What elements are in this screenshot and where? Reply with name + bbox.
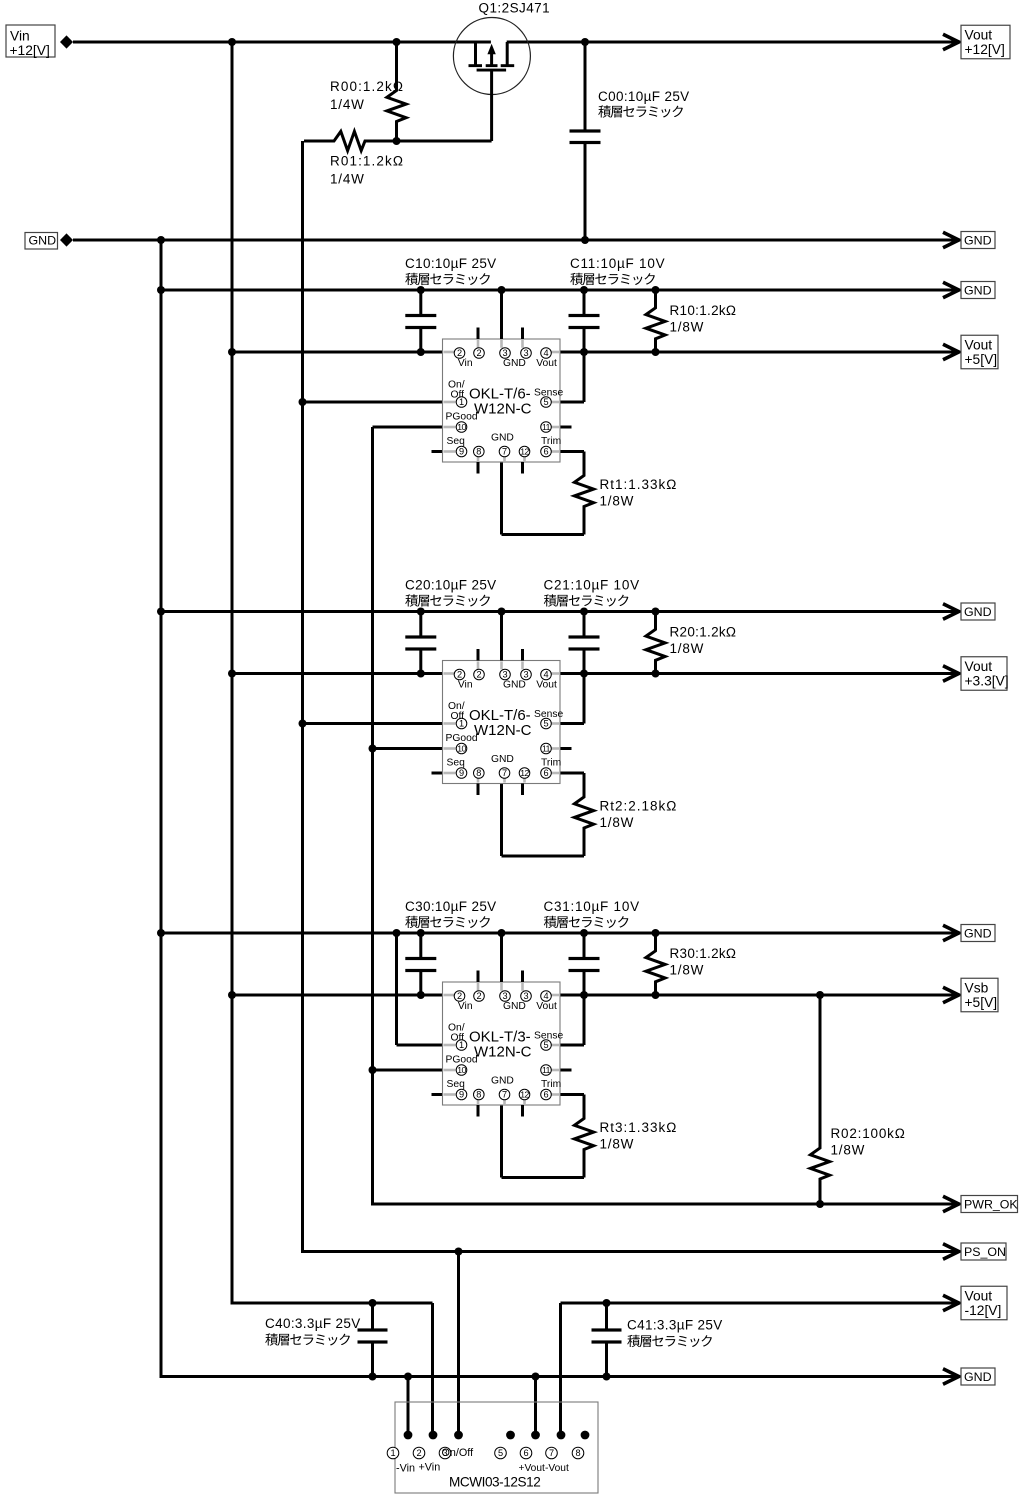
wire C40 row [232,1302,433,1305]
junction C40 row / C40 [369,1299,377,1307]
capacitor C21 value label [544,578,640,593]
module U3 top pin stub x522.5 [521,971,524,983]
wire Sense module 1 [560,352,584,402]
module U4 name MCWI03-12S12 [449,1475,540,1490]
capacitor C00 value label [598,89,690,104]
svg-text:3: 3 [523,348,528,358]
wire pin11 stub module 2 [560,747,572,750]
junction On/Off row2 / PS_ON bus [299,720,307,728]
wire MCWI +Vin column [431,1303,434,1435]
module U1 bottom pin stub x522.5 [521,462,524,474]
svg-text:9: 9 [459,447,464,457]
resistor Rt2 value label [600,799,678,831]
svg-text:9: 9 [459,1090,464,1100]
transistor Q1 source bar [469,64,483,67]
module U1 pin name Vin [458,358,473,369]
wire pin11 stub module 1 [560,426,572,429]
node PS_ON arrow [943,1244,959,1259]
wire pin11 stub module 3 [560,1069,572,1072]
module U3 pin 5 circle [541,1040,552,1051]
module U1 pin 11 circle [541,422,552,433]
svg-text:GND: GND [503,358,526,369]
module U2 pin 2 top circle [474,669,485,680]
wire Vin row module 2 left [232,672,443,675]
svg-text:8: 8 [575,1448,580,1458]
svg-text:C41:3.3µF 25V: C41:3.3µF 25V [627,1318,723,1333]
svg-text:1/4W: 1/4W [330,97,365,112]
module U4 pin name +Vin [419,1462,441,1474]
module U2 pin 9 circle [456,768,467,779]
junction GND row1 / GND bus [157,286,165,294]
junction GND row1 / GND pin column [498,286,506,294]
node output arrow module 2 [943,666,959,681]
transistor Q1 2SJ471 body circle [453,18,530,95]
junction Vin row3 / +12V bus [228,991,236,999]
svg-text:Vout: Vout [965,1288,993,1303]
transistor Q1 source lead [474,42,477,65]
svg-text:C20:10µF 25V: C20:10µF 25V [405,578,497,593]
svg-text:R00:1.2kΩ: R00:1.2kΩ [330,79,404,94]
transistor Q1 body arrow [487,44,495,65]
node GND arrow row0 [943,232,959,247]
wire Sense module 2 [560,674,584,724]
wire PGood bus vertical x372.5 [371,427,374,1206]
net label Vout +12[V] [961,25,1010,59]
module U2 pin name Trim [541,758,561,769]
svg-text:7: 7 [502,1090,507,1100]
junction Vin row1 / +12V bus [228,348,236,356]
module U2 pin 3 circle [500,669,511,680]
module U1 top pin stub x478 [477,328,480,340]
svg-text:1/8W: 1/8W [670,963,705,978]
net label GND row3 [961,925,995,942]
junction GND rail / GND bus [157,236,165,244]
svg-text:Vin: Vin [458,1001,473,1012]
module U2 pin name Vout [536,680,557,691]
module U2 bottom pin stub x522.5 [521,784,524,796]
svg-text:8: 8 [476,1090,481,1100]
svg-text:GND: GND [503,680,526,691]
junction GND row3 / GND bus [157,929,165,937]
module U3 pin 2 Vin circle [454,991,465,1002]
junction Vin row2 / C20 [417,670,425,678]
module U3 pin 4 Vout circle [541,991,552,1002]
junction GND row1 / R10 [652,286,660,294]
module U4 pin name -Vin [396,1463,415,1475]
node GND bottom arrow [943,1369,959,1384]
svg-text:Seq: Seq [447,1079,466,1090]
svg-text:1/8W: 1/8W [600,815,635,830]
module U2 pin name Vin [458,680,473,691]
wire module 3 On/Off tie column x396.5 [395,933,398,1045]
junction GND row2 / GND bus [157,608,165,616]
module U4 pin 5 circle [495,1447,507,1459]
svg-text:C31:10µF 10V: C31:10µF 10V [544,899,640,914]
node GND arrow row1 [943,282,959,297]
module U3 pin 8 circle [474,1089,485,1100]
svg-text:4: 4 [543,670,548,680]
wire MCWI -Vin column [407,1377,410,1436]
svg-text:1/8W: 1/8W [831,1143,866,1158]
net label GND input box [25,233,58,250]
module U2 pin 10 circle [456,743,467,754]
module U4 pin name -Vout [545,1463,569,1474]
resistor Rt2 [574,797,593,857]
svg-text:GND: GND [491,754,514,765]
resistor R00 1.2k [387,43,406,140]
svg-text:10: 10 [457,422,466,432]
svg-text:Vin: Vin [10,29,30,44]
svg-text:-Vout: -Vout [545,1463,569,1474]
svg-text:W12N-C: W12N-C [474,401,532,418]
junction Vout row2 / R20 [652,670,660,678]
junction Vout row3 / R30 [652,991,660,999]
junction GND row3 / GND pin column [498,929,506,937]
svg-text:GND: GND [964,283,992,297]
module U3 pin 12 circle [519,1089,530,1100]
svg-text:Trim: Trim [541,758,561,769]
junction +12V rail / +12V bus [228,38,236,46]
capacitor C10 [405,290,436,352]
capacitor C40 [358,1303,388,1377]
capacitor C20 value label [405,578,497,593]
module U4 pin 3 dot [454,1431,463,1440]
svg-text:C40:3.3µF 25V: C40:3.3µF 25V [265,1316,361,1331]
svg-text:Vsb: Vsb [965,980,989,995]
module U2 grey pin lines [444,662,560,783]
wire PS_ON row [303,1250,959,1253]
svg-text:4: 4 [543,991,548,1001]
module U2 pin 2 Vin circle [454,669,465,680]
svg-text:GND: GND [491,433,514,444]
wire On/Off row module 3 [397,1044,443,1047]
capacitor C40 value label [265,1316,361,1331]
svg-text:+3.3[V]: +3.3[V] [965,674,1009,689]
module U1 pin 3 circle [500,348,511,359]
wire GND main rail [73,239,959,242]
svg-text:Sense: Sense [534,388,563,399]
module U3 pin 6 circle [541,1089,552,1100]
junction On/Off row1 / PS_ON bus [299,398,307,406]
svg-text:GND: GND [964,926,992,940]
svg-text:R20:1.2kΩ: R20:1.2kΩ [670,625,737,640]
module U4 pin 2 dot [429,1431,438,1440]
module U2 OKL-T/6-W12N-C box [443,661,561,784]
wire On/Off row module 2 [303,722,443,725]
node Vin input diamond [60,35,73,48]
svg-text:R01:1.2kΩ: R01:1.2kΩ [330,154,404,169]
module U1 GND top pin column [500,290,503,339]
capacitor C20 [405,612,436,674]
svg-text:GND: GND [491,1076,514,1087]
wire Vout row module 1 right [560,351,959,354]
svg-text:Rt2:2.18kΩ: Rt2:2.18kΩ [600,799,678,814]
module U3 pin name Vout [536,1001,557,1012]
svg-text:7: 7 [502,447,507,457]
wire PGood row module 1 [373,426,443,429]
module U1 pin name GND top [503,358,526,369]
module U1 pin 1 circle [456,397,467,408]
node GND input diamond [60,233,73,246]
capacitor C30 value label [405,899,497,914]
junction module3 On/Off tie / GND row3 [393,929,401,937]
module U1 pin 9 circle [456,446,467,457]
capacitor C31 [569,933,600,995]
module U4 pin 2 circle [413,1447,425,1459]
svg-text:+5[V]: +5[V] [965,995,998,1010]
module U3 pin 3 circle [500,991,511,1002]
module U2 top pin stub x522.5 [521,649,524,661]
junction Vin row2 / +12V bus [228,670,236,678]
capacitor C31 value label [544,899,640,914]
module U2 pin name GND top [503,680,526,691]
module U4 pin 1 dot [404,1431,413,1440]
module U4 pin 5 dot [506,1431,515,1440]
module U3 pin name Vin [458,1001,473,1012]
svg-text:Sense: Sense [534,709,563,720]
svg-text:C21:10µF 10V: C21:10µF 10V [544,578,640,593]
node output arrow module 1 [943,344,959,359]
capacitor C41 value label [627,1318,723,1333]
svg-text:+12[V]: +12[V] [965,42,1005,57]
wire +12V bus vertical x232 [231,42,234,1305]
junction GND row1 / C10 [417,286,425,294]
module U3 pin 7 circle [499,1089,510,1100]
node Vout -12[V] arrow [943,1295,959,1310]
transistor Q1 drain lead [506,42,509,65]
wire Rt1 bottom to GND pin [502,462,585,535]
svg-text:8: 8 [476,447,481,457]
svg-text:1/8W: 1/8W [600,494,635,509]
capacitor C20 japanese label [405,594,490,606]
module U1 pin 6 circle [541,446,552,457]
module U2 pin 7 circle [499,768,510,779]
svg-text:9: 9 [459,768,464,778]
svg-text:7: 7 [549,1448,554,1458]
svg-text:2: 2 [457,991,462,1001]
svg-text:5: 5 [543,397,548,407]
net label GND row0 [961,232,995,249]
transistor Q1 drain bar [501,64,515,67]
svg-text:10: 10 [457,1065,466,1075]
module U2 pin 4 Vout circle [541,669,552,680]
svg-text:2: 2 [457,348,462,358]
svg-text:Seq: Seq [447,436,466,447]
svg-text:5: 5 [543,1040,548,1050]
junction GND row1 / C11 [580,286,588,294]
module U1 pin 12 circle [519,446,530,457]
wire Vout -12V row [561,1302,959,1305]
svg-text:R02:100kΩ: R02:100kΩ [831,1126,906,1141]
net label PS_ON [961,1243,1006,1260]
svg-text:Vout: Vout [965,659,993,674]
svg-text:Vout: Vout [536,358,557,369]
transistor Q1 label [479,1,551,16]
wire Seq stub module 3 [432,1093,444,1096]
module U4 pin 6 dot [531,1431,540,1440]
junction Vin row1 / C10 [417,348,425,356]
svg-text:1/8W: 1/8W [670,320,705,335]
svg-text:GND: GND [964,605,992,619]
resistor Rt1 [574,475,593,535]
svg-text:W12N-C: W12N-C [474,722,532,739]
junction GND bottom / C41 [603,1373,611,1381]
resistor R01 1.2k [304,131,395,150]
module U2 pin name On/Off [448,701,465,722]
module U1 pin 4 Vout circle [541,348,552,359]
module U4 pin 3 circle [439,1447,451,1459]
capacitor C00 japanese label [598,105,683,117]
module U3 name [469,1029,532,1061]
svg-text:2: 2 [416,1448,421,1458]
svg-text:5: 5 [498,1448,503,1458]
junction GND rail / C00 [581,236,589,244]
junction -12V row / C41 [603,1299,611,1307]
module U3 bottom pin stub x522.5 [521,1105,524,1117]
wire GND row module 1 [161,289,959,292]
node output arrow module 3 [943,987,959,1002]
capacitor C41 [592,1303,622,1377]
module U1 pin 5 circle [541,397,552,408]
svg-text:2: 2 [457,670,462,680]
capacitor C10 value label [405,256,497,271]
svg-text:6: 6 [523,1448,528,1458]
svg-text:Off: Off [451,390,465,401]
module U2 GND top pin column [500,612,503,661]
module U2 pin 3b circle [521,669,532,680]
resistor R01 value label [330,154,404,187]
svg-text:MCWI03-12S12: MCWI03-12S12 [449,1475,540,1490]
wire Trim module 1 [560,452,584,477]
svg-text:+12[V]: +12[V] [10,43,50,58]
resistor R02 value label [831,1126,906,1158]
wire Seq stub module 1 [432,450,444,453]
svg-text:5: 5 [543,719,548,729]
svg-text:11: 11 [542,1065,551,1075]
junction R00/R01/gate node [393,137,401,145]
svg-text:-Vin: -Vin [396,1463,415,1475]
wire PGood row module 2 [373,747,443,750]
junction Vout row2 / sense column [580,670,588,678]
module U1 pin name PGood [446,412,478,423]
svg-text:Off: Off [451,1033,465,1044]
resistor R10 value label [670,303,737,335]
module U3 pin name Seq [447,1079,466,1090]
capacitor C41 japanese label [627,1335,712,1347]
svg-text:Trim: Trim [541,1079,561,1090]
svg-text:Vout: Vout [536,1001,557,1012]
wire +12V rail left segment [73,41,491,44]
svg-text:On/Off: On/Off [442,1447,475,1459]
junction GND row2 / GND pin column [498,608,506,616]
svg-text:8: 8 [476,768,481,778]
wire MCWI -Vout column [559,1303,562,1435]
svg-text:Rt1:1.33kΩ: Rt1:1.33kΩ [600,477,678,492]
module U4 pin 8 circle [572,1447,584,1459]
svg-text:C00:10µF 25V: C00:10µF 25V [598,89,690,104]
wire Vout row module 3 right [560,994,959,997]
svg-text:GND: GND [964,1370,992,1384]
module U1 grey pin lines [444,340,560,461]
svg-text:7: 7 [502,768,507,778]
resistor R10 1.2k [646,290,665,352]
transistor Q1 body bar [486,64,498,67]
svg-text:+5[V]: +5[V] [965,352,998,367]
svg-text:Off: Off [451,711,465,722]
module U1 OKL-T/6-W12N-C box [443,339,561,462]
module U3 pin name GND bottom [491,1076,514,1087]
svg-text:1/4W: 1/4W [330,172,365,187]
resistor R00 value label [330,79,404,112]
node GND arrow row3 [943,925,959,940]
capacitor C31 japanese label [544,916,629,928]
resistor Rt1 value label [600,477,678,509]
junction Vout row3 / sense column [580,991,588,999]
module U1 pin 3b circle [521,348,532,359]
wire PGood row module 3 [373,1069,443,1072]
module U2 pin 6 circle [541,768,552,779]
svg-text:12: 12 [520,1090,529,1100]
wire GND row module 3 [161,932,959,935]
junction PS_ON / MCWI pin3 column [455,1248,463,1256]
svg-text:Sense: Sense [534,1031,563,1042]
junction GND row2 / R20 [652,608,660,616]
net label output module 3 [961,978,998,1012]
module U2 pin name Sense [534,709,563,720]
net label Vin +12[V] input box [6,25,55,58]
module U3 top pin stub x478 [477,971,480,983]
module U4 pin name +Vout [519,1463,546,1474]
module U1 pin 2 top circle [474,348,485,359]
net label output module 1 [961,335,998,369]
module U3 pin name On/Off [448,1023,465,1044]
svg-text:C30:10µF 25V: C30:10µF 25V [405,899,497,914]
wire PS_ON bus vertical x302.5 [301,141,304,1253]
module U3 pin 10 circle [456,1065,467,1076]
module U4 pin 1 circle [387,1447,399,1459]
module U1 pin name Trim [541,436,561,447]
junction GND bottom / MCWI pin6 [532,1373,540,1381]
net label Vout -12[V] [961,1286,1007,1320]
module U2 pin 5 circle [541,718,552,729]
junction GND row2 / C21 [580,608,588,616]
module U2 name [469,707,532,739]
module U1 pin name GND bottom [491,433,514,444]
svg-text:PGood: PGood [446,1055,478,1066]
capacitor C10 japanese label [405,273,490,285]
module U2 pin name Seq [447,758,466,769]
svg-text:Vout: Vout [536,680,557,691]
junction Vin row3 / C30 [417,991,425,999]
module U3 pin 1 circle [456,1040,467,1051]
junction GND row3 / C31 [580,929,588,937]
wire MCWI +Vout column [534,1377,537,1436]
module U3 pin 9 circle [456,1089,467,1100]
wire Q1 gate vertical [490,70,493,141]
svg-text:PGood: PGood [446,733,478,744]
svg-text:Vin: Vin [458,358,473,369]
svg-text:GND: GND [503,1001,526,1012]
resistor R30 1.2k [646,933,665,995]
module U1 top pin stub x522.5 [521,328,524,340]
module U2 pin 8 circle [474,768,485,779]
svg-text:Vout: Vout [965,27,993,42]
wire GND bottom row [161,1375,959,1378]
svg-text:11: 11 [542,744,551,754]
module U3 pin name GND top [503,1001,526,1012]
wire Trim module 3 [560,1095,584,1120]
junction PGood row2 / PGood bus [369,745,377,753]
